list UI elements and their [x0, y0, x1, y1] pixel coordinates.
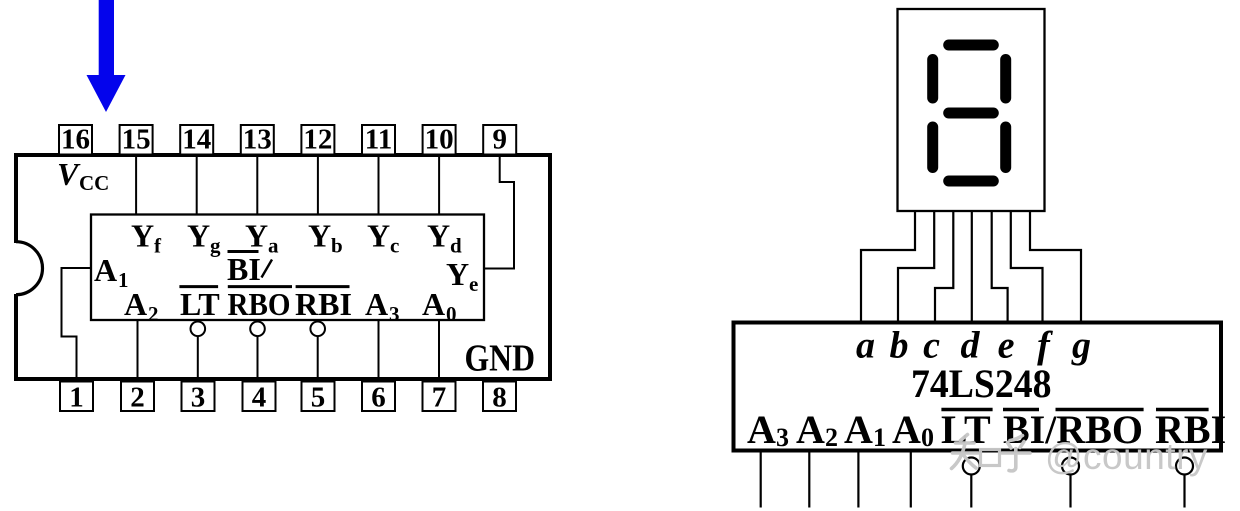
pin 9 box	[483, 124, 516, 156]
wire segment d to block	[971, 211, 973, 323]
svg-text:13: 13	[243, 124, 272, 156]
svg-text:2: 2	[130, 382, 145, 414]
svg-text:Y: Y	[187, 218, 210, 254]
wire pin4 to RBO bubble	[257, 336, 259, 381]
svg-text:8: 8	[492, 382, 507, 414]
wire pin3 to LT bubble	[197, 336, 199, 381]
svg-text:CC: CC	[79, 171, 109, 195]
svg-text:6: 6	[371, 382, 386, 414]
svg-text:3: 3	[191, 382, 206, 414]
inversion bubble pin4 RBO	[250, 322, 265, 337]
svg-text:A: A	[796, 407, 825, 452]
svg-text:RBO: RBO	[228, 286, 291, 322]
label A2 input	[796, 407, 838, 452]
IC U2 74LS248 block outline	[734, 323, 1222, 451]
pin 12 box	[301, 124, 334, 156]
svg-text:A: A	[365, 286, 388, 322]
wire A2 input stub	[808, 451, 810, 508]
label BI/RBO with overbars	[1003, 407, 1144, 452]
wire pin6 to A3	[378, 320, 380, 382]
label Yb	[308, 218, 343, 258]
label RBI with overbar	[295, 286, 352, 322]
pin 8 box	[483, 382, 516, 414]
svg-text:4: 4	[252, 382, 267, 414]
svg-text:b: b	[331, 234, 343, 258]
svg-text:15: 15	[122, 124, 151, 156]
wire segment c to block	[935, 211, 953, 323]
segment g	[949, 108, 994, 119]
svg-text:Y: Y	[427, 218, 450, 254]
svg-text:Y: Y	[308, 218, 331, 254]
svg-text:LT: LT	[180, 286, 220, 322]
svg-text:f: f	[154, 234, 162, 258]
svg-text:0: 0	[921, 423, 934, 452]
label A1 input	[844, 407, 886, 452]
svg-text:7: 7	[432, 382, 447, 414]
pin 13 box	[241, 124, 274, 156]
wire pin9 to Ye (stepped)	[484, 155, 514, 269]
label e	[998, 325, 1015, 367]
svg-text:g: g	[210, 234, 221, 258]
svg-text:3: 3	[389, 302, 400, 326]
label c	[923, 325, 940, 367]
wire pin7 to A0	[438, 320, 440, 382]
svg-text:Y: Y	[367, 218, 390, 254]
bubble LT input	[963, 458, 980, 508]
pin 4 box	[243, 382, 276, 414]
svg-text:RBI: RBI	[295, 286, 352, 322]
wire segment a to block	[861, 211, 915, 323]
label A0 input	[892, 407, 934, 452]
label Ye	[446, 256, 478, 296]
svg-text:GND: GND	[465, 338, 536, 380]
pin 14 box	[180, 124, 213, 156]
svg-text:16: 16	[61, 124, 90, 156]
pin 11 box	[362, 124, 395, 156]
wire segment b to block	[898, 211, 934, 323]
label A3	[365, 286, 400, 326]
blue pointer arrow	[87, 0, 126, 112]
svg-text:2: 2	[148, 302, 159, 326]
label f	[1037, 325, 1053, 367]
pin 7 box	[423, 382, 456, 414]
bubble BI/RBO input	[1062, 458, 1079, 508]
label g	[1071, 325, 1091, 367]
wire pin15 to Yf	[135, 155, 137, 215]
pin 15 box	[120, 124, 153, 156]
segment f	[927, 60, 938, 99]
svg-text:0: 0	[446, 302, 457, 326]
label Ya	[245, 218, 279, 258]
label 74LS248	[911, 361, 1052, 406]
wire segment g to block	[1030, 211, 1081, 323]
svg-text:A: A	[124, 286, 147, 322]
svg-text:11: 11	[365, 124, 392, 156]
svg-text:A: A	[747, 407, 776, 452]
watermark zhihu @country	[952, 435, 1208, 478]
segment e	[927, 127, 938, 168]
segment a	[949, 40, 994, 51]
svg-text:a: a	[856, 325, 875, 367]
svg-text:d: d	[450, 234, 462, 258]
svg-text:a: a	[268, 234, 279, 258]
7-segment display DS1 outline	[898, 9, 1045, 211]
label LT with overbar	[941, 407, 993, 452]
label b	[890, 325, 909, 367]
label A2	[124, 286, 159, 326]
svg-text:Y: Y	[131, 218, 154, 254]
inner function box	[91, 215, 484, 321]
wire pin10 to Yd	[438, 155, 440, 215]
wire pin2 to A2	[137, 320, 139, 382]
label d	[961, 325, 981, 367]
wire A0 input stub	[910, 451, 912, 508]
label BI/ with overbar	[227, 251, 272, 287]
label A1 (pin 1 input)	[94, 252, 129, 292]
svg-text:V: V	[57, 156, 81, 192]
package notch (left edge semicircle)	[10, 242, 43, 295]
IC U1 body (74LS248 DIP-16 package outline)	[16, 155, 550, 379]
label A3 input	[747, 407, 789, 452]
svg-text:1: 1	[873, 423, 886, 452]
wire segment f to block	[1011, 211, 1043, 323]
label RBO with overbar	[228, 286, 293, 322]
wire pin12 to Yb	[317, 155, 319, 215]
wire pin5 to RBI bubble	[317, 336, 319, 381]
wire pin13 to Ya	[256, 155, 258, 215]
segment c	[1000, 127, 1011, 168]
label Yc	[367, 218, 399, 258]
bubble RBI input	[1176, 458, 1193, 508]
svg-text:1: 1	[69, 382, 84, 414]
svg-text:10: 10	[425, 124, 454, 156]
svg-text:Y: Y	[446, 256, 469, 292]
segment d	[949, 176, 994, 187]
svg-text:A: A	[94, 252, 117, 288]
pin 3 box	[182, 382, 215, 414]
svg-text:5: 5	[311, 382, 326, 414]
label Yf	[131, 218, 162, 258]
wire pin1 to A1 (stepped)	[62, 268, 92, 382]
label Yd	[427, 218, 462, 258]
svg-text:74LS248: 74LS248	[911, 361, 1052, 406]
wire pin11 to Yc	[378, 155, 380, 215]
label Yg	[187, 218, 221, 258]
svg-text:e: e	[469, 272, 478, 296]
svg-text:12: 12	[303, 124, 332, 156]
label GND (pin 8 ground)	[465, 338, 536, 380]
inversion bubble pin3 LT	[191, 322, 206, 337]
wire segment e to block	[992, 211, 1008, 323]
svg-text:9: 9	[492, 124, 507, 156]
wire pin14 to Yg	[196, 155, 198, 215]
pin 5 box	[302, 382, 335, 414]
pin 6 box	[362, 382, 395, 414]
segment b	[1000, 60, 1011, 99]
pin 10 box	[423, 124, 456, 156]
svg-text:2: 2	[825, 423, 838, 452]
svg-text:Y: Y	[245, 218, 268, 254]
label VCC (pin 16 power)	[57, 156, 109, 195]
wire A1 input stub	[857, 451, 859, 508]
svg-text:g: g	[1071, 325, 1091, 367]
pin 2 box	[121, 382, 154, 414]
label A0	[422, 286, 457, 326]
wire A3 input stub	[760, 451, 762, 508]
svg-text:b: b	[890, 325, 909, 367]
svg-text:A: A	[892, 407, 921, 452]
svg-text:c: c	[390, 234, 399, 258]
label a	[856, 325, 875, 367]
svg-text:@country: @country	[1045, 436, 1208, 477]
svg-text:A: A	[422, 286, 445, 322]
svg-text:A: A	[844, 407, 873, 452]
svg-text:3: 3	[776, 423, 789, 452]
svg-text:14: 14	[182, 124, 211, 156]
pin 16 box	[59, 124, 92, 156]
label LT with overbar	[179, 286, 219, 322]
label RBI with overbar	[1155, 407, 1226, 452]
inversion bubble pin5 RBI	[310, 322, 325, 337]
pin 1 box	[60, 382, 93, 414]
svg-text:BI: BI	[227, 251, 261, 287]
